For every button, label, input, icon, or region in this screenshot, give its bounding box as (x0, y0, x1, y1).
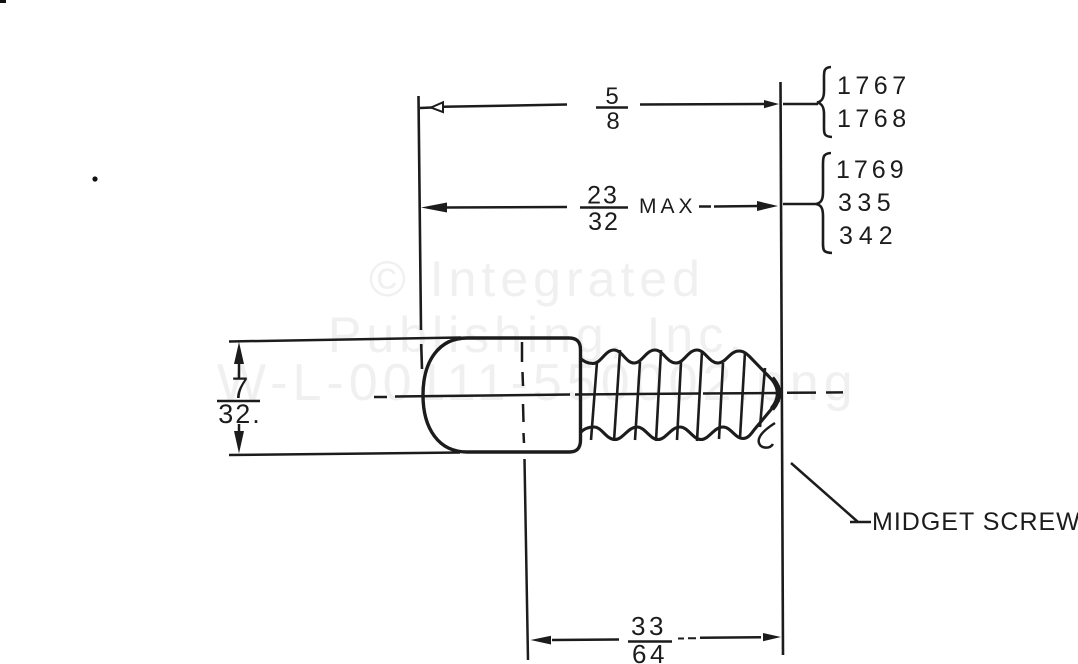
fraction 23/32 bar (580, 206, 628, 209)
thread flank line 5 (677, 362, 681, 440)
svg-text:32: 32 (588, 208, 620, 236)
thread flank line 6 (697, 351, 702, 441)
leader line to label (791, 463, 871, 522)
dash after MAX (699, 205, 711, 208)
dashed extension line (33/64 left) (522, 342, 528, 660)
fraction 5/8 bar (596, 106, 628, 109)
thread flank line 8 (740, 352, 745, 438)
dimension line 33/64 right segment (700, 636, 761, 639)
7/32 top extension line (229, 338, 461, 342)
svg-text:MIDGET SCREW: MIDGET SCREW (872, 508, 1078, 536)
left extension line (419, 96, 423, 369)
screw thread top edge (580, 350, 779, 387)
leader curl at screw (759, 423, 775, 448)
filled arrowhead right (5/8) (764, 100, 779, 108)
7/32 bottom extension line (229, 453, 460, 456)
svg-text:32.: 32. (218, 399, 262, 429)
thread flank line 1 (591, 362, 597, 440)
thread flank line 9 (760, 368, 765, 427)
fraction 7/32 bar (217, 400, 260, 403)
curly brace 1767/1768 (817, 67, 832, 137)
brace connector 1767/1768 (783, 103, 818, 106)
svg-text:33: 33 (631, 611, 667, 641)
svg-text:1769: 1769 (836, 156, 908, 184)
thread flank line 4 (656, 350, 661, 441)
open arrowhead left (5/8) (431, 102, 443, 112)
screw thread bottom edge (580, 400, 779, 440)
7/32 down arrow (238, 424, 241, 438)
stray dot (92, 176, 97, 181)
thread flank line 3 (635, 362, 640, 440)
svg-text:335: 335 (838, 189, 896, 217)
right extension line (781, 82, 784, 655)
bulb envelope (423, 338, 581, 452)
svg-text:23: 23 (587, 182, 619, 210)
dimension line 5/8 left segment (420, 105, 567, 109)
svg-text:342: 342 (839, 222, 899, 250)
small dashes right of fraction (678, 637, 696, 639)
brace connector 1769/335/342 (783, 203, 818, 206)
svg-text:64: 64 (632, 639, 668, 664)
filled arrowhead right (33/64) (763, 633, 781, 641)
svg-text:8: 8 (606, 108, 619, 135)
7/32 up arrow (238, 356, 241, 378)
dimension line 5/8 right segment (640, 103, 766, 106)
svg-text:5: 5 (605, 83, 618, 110)
dimension line 23/32 right segment (714, 205, 760, 208)
fraction 33/64 bar (628, 640, 672, 643)
dimension line 23/32 left segment (446, 206, 567, 209)
center line (374, 392, 843, 397)
filled arrowhead left (33/64) (531, 636, 552, 645)
svg-text:1768: 1768 (837, 105, 911, 133)
filled arrowhead right (23/32) (757, 201, 778, 211)
dimension line 33/64 left segment (552, 638, 619, 641)
thread flank line 2 (614, 350, 620, 441)
thread flank line 7 (719, 363, 723, 439)
corner mark (0, 0, 6, 3)
screw tip arc (772, 378, 779, 409)
svg-text:1767: 1767 (837, 72, 911, 100)
svg-text:MAX: MAX (639, 195, 697, 218)
curly brace 1769/335/342 (816, 153, 832, 253)
filled arrowhead left (23/32) (421, 203, 447, 213)
